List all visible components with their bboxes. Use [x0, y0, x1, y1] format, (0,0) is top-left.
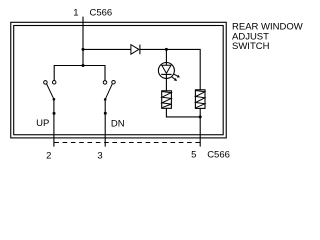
switch DN throw circle [112, 80, 116, 84]
node junction dot rail tee [82, 64, 85, 67]
LED indicator lamp [158, 63, 180, 82]
wire LED branch vertical [165, 49, 167, 65]
wire left resistor bottom [166, 108, 200, 117]
diode CR1 [131, 45, 140, 55]
node junction dot at diode branch [82, 48, 85, 51]
connector C566 dashed line [54, 142, 200, 144]
node junction dot LED branch [165, 48, 168, 51]
svg-text:1: 1 [73, 7, 78, 18]
svg-text:UP: UP [36, 118, 49, 129]
node dot on pin 2 wire [53, 112, 56, 115]
wire right branch vertical [199, 49, 201, 90]
switch UP throw circle [44, 81, 48, 85]
node dot on pin 3 wire [104, 112, 107, 115]
wire horizontal to diode anode [83, 48, 131, 50]
svg-text:DN: DN [111, 118, 125, 129]
wire pin 1 vertical [82, 17, 84, 66]
wire switch rail [54, 66, 105, 81]
switch DN contact circle [103, 81, 107, 85]
switch body outer box [11, 22, 227, 138]
switch DN lever [105, 84, 112, 100]
svg-text:C566: C566 [90, 7, 113, 18]
svg-text:C566: C566 [207, 150, 230, 161]
resistor right [195, 90, 205, 109]
switch UP lever hinge dot [53, 98, 56, 101]
switch UP lever [47, 84, 54, 99]
wire right resistor bottom [199, 108, 201, 117]
wire to pin 2 [53, 99, 55, 146]
node junction dot resistor bottoms [199, 115, 202, 118]
wire diode cathode to right branch corner [140, 48, 200, 50]
svg-text:2: 2 [46, 150, 51, 161]
switch DN lever hinge dot [104, 98, 107, 101]
switch body inner box [14, 26, 224, 135]
wire to pin 5 [199, 117, 201, 147]
svg-text:5: 5 [191, 150, 196, 161]
svg-text:SWITCH: SWITCH [232, 41, 270, 52]
wire LED to left resistor [165, 74, 167, 90]
wire to pin 3 [104, 99, 106, 146]
svg-text:3: 3 [97, 150, 102, 161]
resistor left [162, 91, 172, 109]
switch UP contact circle [52, 81, 56, 85]
